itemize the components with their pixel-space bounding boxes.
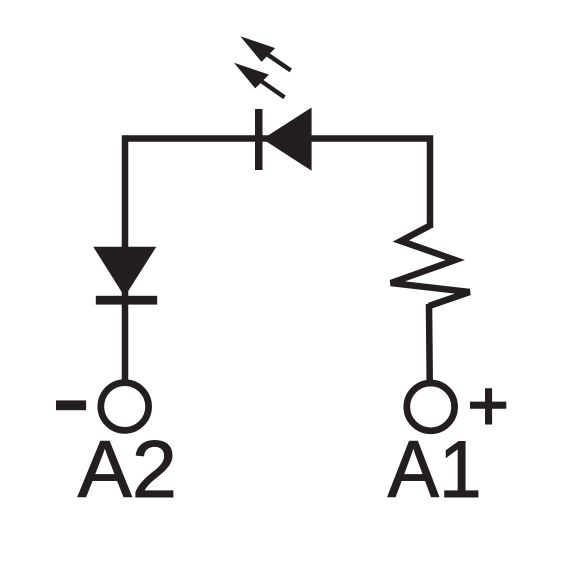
LED light arrow 1 (upper) <box>240 36 290 70</box>
minus sign <box>56 400 86 410</box>
LED light arrow 2 (lower) <box>234 63 285 98</box>
plus sign <box>470 388 506 424</box>
diode D2 cathode bar <box>96 296 157 305</box>
terminal A2 circle <box>101 383 149 431</box>
LED D1 triangle <box>263 108 312 171</box>
svg-text:A2: A2 <box>78 425 177 515</box>
resistor <box>391 226 470 307</box>
wire: left vertical <box>122 135 129 379</box>
wire: right vertical lower <box>426 304 433 380</box>
terminal A1 circle <box>407 383 455 431</box>
LED D1 cathode bar <box>255 109 263 170</box>
diode D2 triangle <box>93 247 156 297</box>
wire: top horizontal with corners <box>125 139 430 229</box>
svg-text:A1: A1 <box>388 423 482 514</box>
